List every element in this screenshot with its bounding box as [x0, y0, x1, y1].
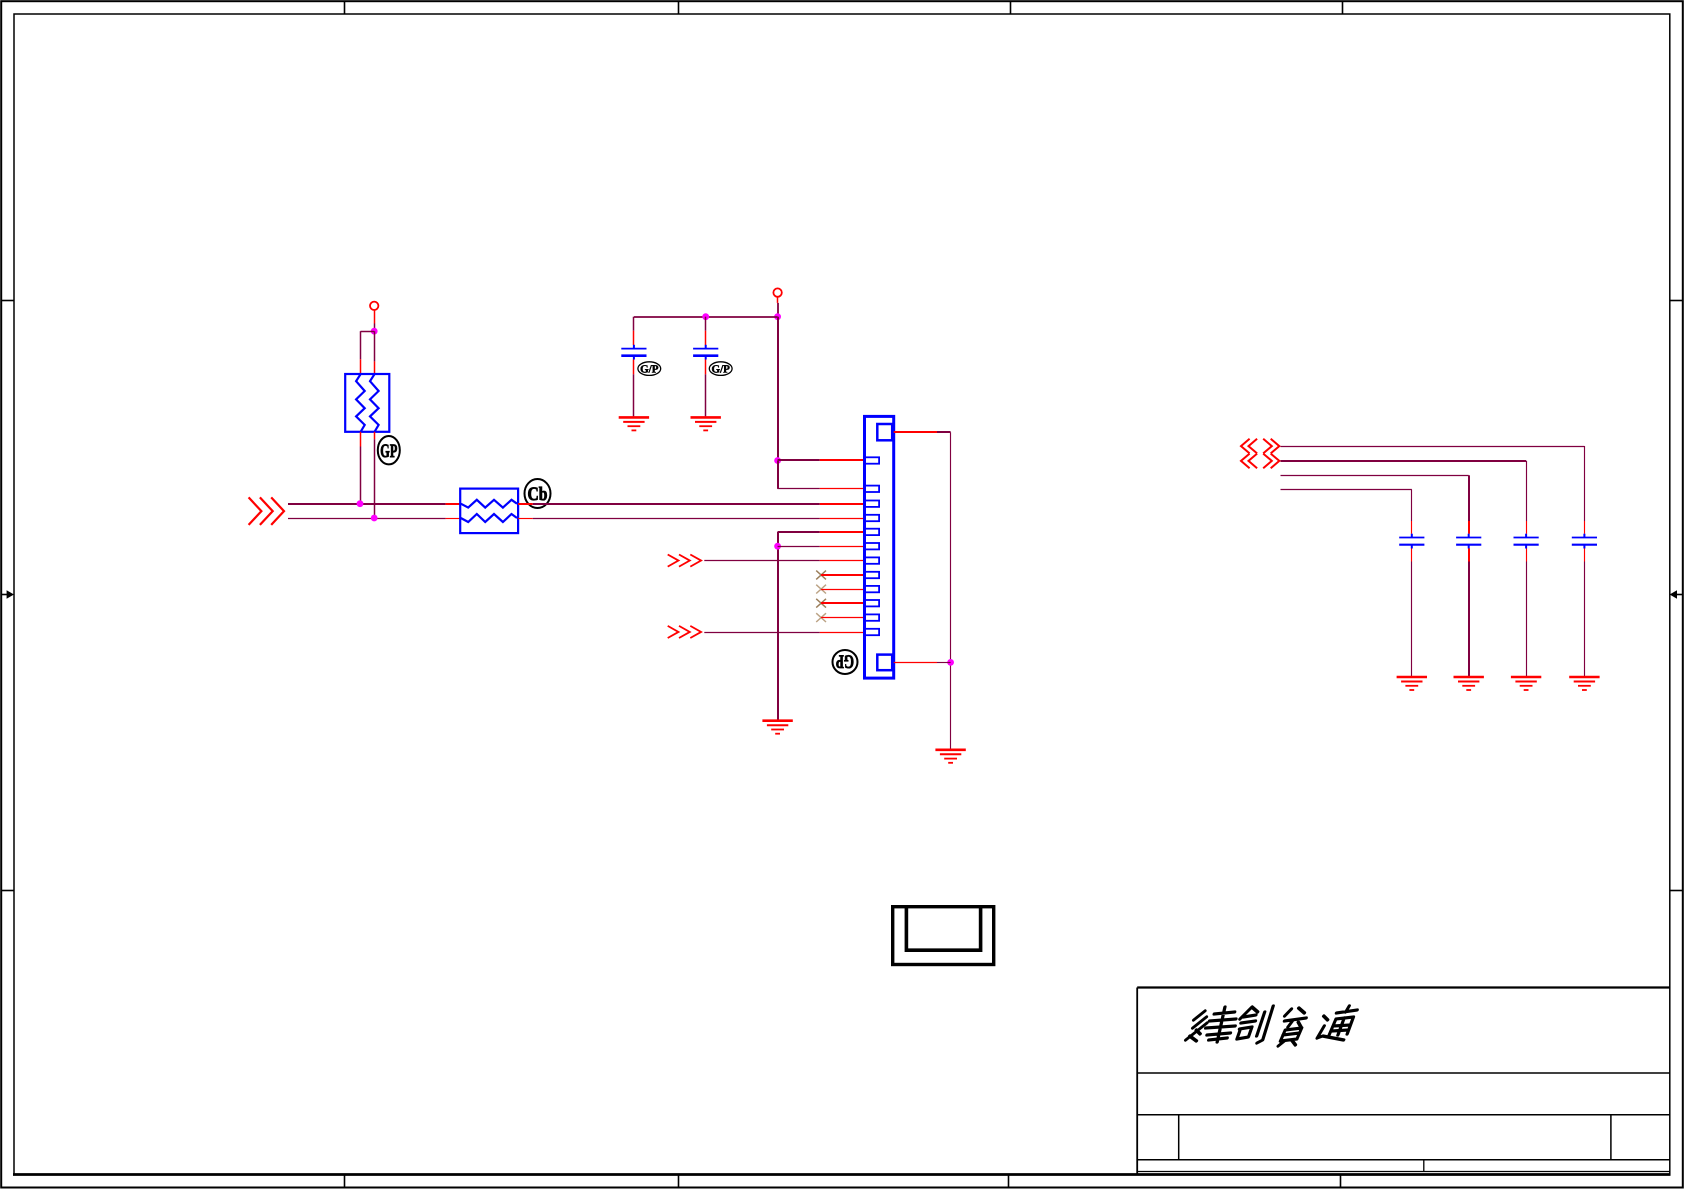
- ground (right trunk): [935, 750, 965, 763]
- capacitor C3: [1572, 534, 1597, 549]
- connector J1 pin box 12: [865, 629, 880, 635]
- C3 top red stub: [1584, 521, 1586, 534]
- ground (C6): [1397, 677, 1427, 690]
- connector J1 pin box 2: [865, 486, 880, 492]
- wire: RP1 pin4 to net B: [374, 439, 376, 518]
- svg-text:G/P: G/P: [712, 363, 731, 375]
- border tick bottom: [1008, 1175, 1010, 1187]
- wire: C2 to ground: [705, 374, 707, 416]
- connector J1 pin box 5: [865, 529, 880, 535]
- wire: net A (thick) chevrons to RN Cb: [288, 503, 446, 505]
- off-page chevrons (left edge, net A/B): [249, 497, 262, 525]
- connector pin6 red stub: [820, 546, 865, 548]
- svg-text:GP: GP: [380, 441, 397, 462]
- connector shell inner tab: [906, 907, 980, 951]
- junction right trunk / mounting pin bottom: [947, 659, 954, 666]
- C5 top red stub: [1468, 521, 1470, 534]
- border tick left: [2, 300, 14, 302]
- connector J1 pin box 10: [865, 600, 880, 606]
- label G/P (C1 value): [638, 362, 661, 376]
- wire: mounting pin top to right trunk: [894, 431, 937, 433]
- ground (C5): [1454, 677, 1484, 690]
- border tick bottom: [678, 1175, 680, 1187]
- capacitor C6: [1399, 534, 1424, 549]
- Cb pin4 red stub: [518, 518, 533, 520]
- wire: to connector pin6: [778, 546, 820, 548]
- border arrow left: [2, 594, 8, 596]
- wire: P2 down: [777, 303, 779, 317]
- bus-entry chevrons (right section): [1241, 439, 1250, 454]
- C2 bottom red stub: [705, 360, 707, 375]
- connector J1 pin box 3: [865, 501, 880, 507]
- connector J1 mounting pin bottom: [877, 655, 892, 671]
- border tick top: [1342, 2, 1344, 14]
- ground (C1): [619, 417, 649, 430]
- wire: C1 to ground: [633, 374, 635, 416]
- off-page chevrons (pin12 net): [668, 626, 679, 638]
- wire: right trunk vertical: [950, 432, 952, 749]
- ground (C4): [1511, 677, 1541, 690]
- C6 bottom red stub: [1411, 548, 1413, 561]
- connector J1 pin box 11: [865, 614, 880, 620]
- label Cb (resistor network designator): [525, 479, 551, 508]
- RP1 pin1 red stub: [360, 359, 362, 374]
- connector J1 pin box 9: [865, 586, 880, 592]
- wire: net B chevrons to RN Cb: [288, 518, 446, 520]
- RP1 pin4 red stub: [374, 432, 376, 439]
- border arrow right: [1677, 594, 1683, 596]
- wire: bus line 2 to C5: [1281, 475, 1469, 477]
- wire: trunk lower segment (ground trunk): [777, 532, 779, 720]
- connector pin1 red stub: [820, 459, 865, 461]
- connector pin2 red stub: [820, 488, 865, 490]
- junction node at P1 branch: [371, 328, 378, 335]
- no-connect X pin9: [816, 585, 826, 594]
- no-connect X pin10: [816, 599, 826, 608]
- connector J1 pin box 7: [865, 557, 880, 563]
- label G/P (C2 value): [709, 362, 732, 376]
- junction trunk / pin1: [774, 457, 781, 464]
- connector pin10 red stub: [821, 602, 865, 604]
- connector pin11 red stub: [821, 617, 865, 619]
- connector pin5 red stub: [820, 531, 865, 533]
- wire: C3 to ground: [1584, 562, 1586, 677]
- Cb pin2 red stub: [446, 518, 461, 520]
- connector J1 pin box 4: [865, 515, 880, 521]
- connector J1 mounting pin top: [877, 424, 892, 440]
- wire: P1 red pin stub: [374, 310, 376, 324]
- wire: bus line 4 to C3: [1281, 446, 1585, 448]
- svg-text:Cb: Cb: [528, 484, 548, 505]
- off-page chevrons (pin7 net): [668, 555, 679, 567]
- svg-text:GP: GP: [836, 651, 854, 672]
- wire: net A to connector pin3: [533, 503, 820, 505]
- border tick bottom: [1340, 1175, 1342, 1187]
- connector pin3 red stub: [820, 503, 865, 505]
- connector J1 body: [865, 416, 894, 678]
- capacitor C5: [1456, 534, 1481, 549]
- C3 bottom red stub: [1584, 548, 1586, 561]
- title block: [1137, 988, 1670, 1175]
- junction net A / RP1: [357, 500, 364, 507]
- capacitor C2 branch: [705, 317, 707, 331]
- RP1 pin2 red stub: [374, 361, 376, 374]
- connector J1 pin box 8: [865, 572, 880, 578]
- connector pin4 red stub: [820, 518, 865, 520]
- svg-text:G/P: G/P: [640, 363, 659, 375]
- wire: trunk to pin2 corner: [777, 461, 779, 489]
- border tick bottom: [344, 1175, 346, 1187]
- border tick right: [1670, 890, 1683, 892]
- resistor pack RP1 (vertical, 2 elements): [345, 374, 389, 432]
- connector shell symbol (black outline): [893, 907, 994, 965]
- wire: cap rail horizontal: [634, 316, 778, 318]
- C4 top red stub: [1526, 521, 1528, 534]
- wire: down to RP1 pin1: [360, 331, 362, 359]
- capacitor C1: [621, 345, 646, 360]
- wire: to connector pin12: [704, 632, 820, 634]
- label GP (connector designator, rotated): [833, 650, 858, 674]
- connector pin7 red stub: [820, 560, 865, 562]
- port P1 open terminal: [370, 302, 378, 310]
- border tick right: [1670, 300, 1683, 302]
- ground (C3): [1569, 677, 1599, 690]
- company logo text (calligraphy): [1184, 1006, 1358, 1046]
- no-connect X pin8: [816, 571, 826, 580]
- capacitor C1 branch: [633, 317, 635, 331]
- ground (C2): [691, 417, 721, 430]
- wire: C5 to ground: [1468, 562, 1470, 677]
- junction trunk / pin6: [774, 543, 781, 550]
- Cb pin3 red stub: [518, 503, 533, 505]
- wire: C4 to ground: [1526, 562, 1528, 677]
- wire: bus line 1 to C6: [1281, 489, 1412, 491]
- junction cap C2 tap: [702, 313, 709, 320]
- P2 red pin stub: [777, 297, 779, 303]
- wire: junction down to RP1 pin2: [374, 331, 376, 361]
- border tick top: [1010, 2, 1012, 14]
- wire: jog left at junction: [361, 331, 375, 333]
- connector pin8 red stub: [821, 574, 865, 576]
- wire: to connector pin7: [704, 560, 820, 562]
- RP1 pin3 red stub: [360, 432, 362, 447]
- border tick top: [344, 2, 346, 14]
- junction net B / RP1: [371, 515, 378, 522]
- port P2 open terminal: [773, 288, 781, 296]
- connector J1 pin box 6: [865, 543, 880, 549]
- C1 top red stub: [633, 331, 635, 345]
- no-connect X pin11: [816, 613, 826, 622]
- border tick left: [2, 890, 14, 892]
- wire: mounting pin bottom stub: [894, 662, 937, 664]
- connector pin12 red stub: [820, 632, 865, 634]
- wire: P1 to junction: [374, 324, 376, 332]
- wire: net B to connector pin4: [533, 518, 820, 520]
- wire: to connector pin1: [778, 459, 820, 461]
- border tick top: [678, 2, 680, 14]
- wire: bus line 3 to C4: [1281, 460, 1527, 462]
- wire: to connector pin5: [778, 531, 820, 533]
- C6 top red stub: [1411, 521, 1413, 534]
- C1 bottom red stub: [633, 360, 635, 375]
- label GP (resistor pack designator): [378, 436, 400, 464]
- wire: main trunk vertical (upper): [777, 317, 779, 461]
- wire: RP1 pin3 to net A: [360, 447, 362, 504]
- C2 top red stub: [705, 331, 707, 345]
- wire: C6 to ground: [1411, 562, 1413, 677]
- junction P2 / cap rail: [774, 313, 781, 320]
- capacitor C2: [693, 345, 718, 360]
- connector pin9 red stub: [821, 589, 865, 591]
- C4 bottom red stub: [1526, 548, 1528, 561]
- C5 bottom red stub: [1468, 548, 1470, 561]
- capacitor C4: [1514, 534, 1539, 549]
- resistor network Cb (horizontal, 2 elements): [460, 489, 518, 533]
- ground (trunk): [762, 721, 792, 734]
- Cb pin1 red stub: [446, 503, 461, 505]
- connector J1 pin box 1: [865, 457, 880, 463]
- wire: to connector pin2: [778, 488, 820, 490]
